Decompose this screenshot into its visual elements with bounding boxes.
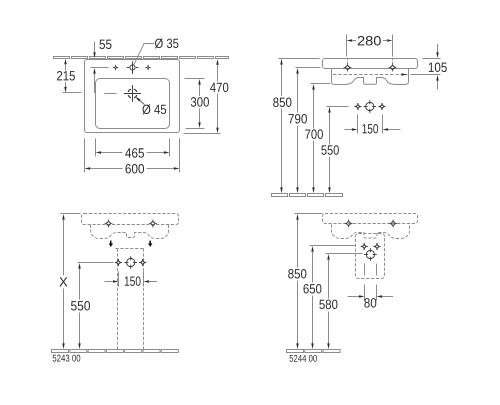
- mounting arrow left: [109, 241, 114, 247]
- dim 55: [93, 40, 111, 93]
- label O 45: [142, 104, 166, 114]
- dim 700: [305, 84, 330, 194]
- tap hole centerline: [91, 67, 109, 69]
- mounting arrow right: [148, 241, 153, 247]
- dim 550: [71, 263, 90, 349]
- dim 300: [185, 79, 209, 129]
- dim 550: [321, 107, 348, 194]
- dim 600: [85, 139, 180, 174]
- tap hole left cross: [113, 65, 118, 70]
- basin dashed rim: [82, 214, 179, 225]
- dim 150: [105, 272, 158, 287]
- tap hole center O35: [127, 61, 139, 74]
- overflow diamond left: [344, 64, 352, 72]
- dim 650: [303, 246, 355, 350]
- fixing hole right: [139, 259, 146, 266]
- label O 45 leader arrow: [136, 98, 144, 105]
- tap hole right cross: [145, 65, 150, 70]
- label O 35 leader: [134, 44, 154, 65]
- inner bowl: [96, 79, 170, 129]
- dim 850: [288, 214, 322, 350]
- drain symbol: [124, 85, 141, 102]
- semi pedestal dashed: [356, 234, 385, 279]
- basin dashed body: [91, 225, 169, 239]
- dim 470: [184, 59, 229, 133]
- diamond right: [389, 220, 397, 228]
- dim 850: [273, 59, 319, 194]
- drain hole: [364, 248, 377, 261]
- dim 80: [348, 285, 394, 308]
- fixing holes centerline: [78, 262, 114, 264]
- dim 280: [347, 35, 393, 65]
- hidden back edge: [333, 74, 408, 76]
- dim 150: [345, 115, 401, 134]
- floor band: [272, 194, 343, 197]
- fixing hole left: [361, 243, 368, 250]
- diamond left: [345, 220, 353, 228]
- product number 5243 00: [53, 355, 81, 362]
- drain pipe lines: [364, 264, 366, 276]
- wall section band: [54, 57, 229, 59]
- fixing hole left: [354, 103, 361, 110]
- basin body profile: [332, 69, 409, 85]
- fixing hole right: [379, 103, 386, 110]
- basin dashed rim: [323, 214, 418, 224]
- fixing hole right: [374, 243, 381, 250]
- diamond left: [105, 220, 113, 228]
- floor band: [287, 350, 341, 353]
- basin dashed body: [332, 225, 410, 239]
- fixing hole left: [115, 259, 122, 266]
- dim X: [59, 214, 80, 350]
- drain hole: [124, 256, 137, 269]
- dim 465: [96, 139, 170, 158]
- product number 5244 00: [290, 355, 317, 362]
- dim 105: [401, 44, 446, 90]
- basin rim bar: [323, 59, 418, 69]
- dim 215: [57, 59, 82, 93]
- drain centerline left: [105, 93, 117, 95]
- label O 35: [155, 38, 179, 48]
- drain hole front: [364, 100, 377, 113]
- dim 790: [289, 68, 321, 194]
- floor band: [52, 350, 179, 353]
- diamond right: [149, 220, 157, 228]
- dim 580: [319, 254, 362, 350]
- pedestal dashed: [116, 249, 145, 350]
- overflow diamond right: [389, 64, 397, 72]
- basin outer rim: [85, 60, 180, 133]
